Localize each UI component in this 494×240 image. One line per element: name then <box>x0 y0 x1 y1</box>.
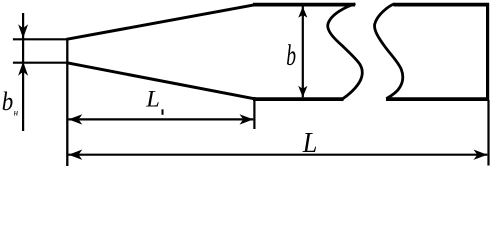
arrowhead b_n up (below strip, pointing up) <box>18 62 28 76</box>
svg-text:b: b <box>286 39 296 72</box>
extension line at right end (for L) <box>487 100 489 166</box>
svg-text:н: н <box>14 108 19 118</box>
right piece right edge <box>486 3 489 101</box>
extension line at taper end (for L1) <box>253 97 255 129</box>
specimen narrow-end top edge <box>13 38 69 40</box>
svg-text:b: b <box>2 86 14 116</box>
right piece bottom edge <box>386 97 489 101</box>
dimension line L <box>69 154 488 156</box>
label L1 subscript 1 <box>162 109 164 115</box>
taper top edge <box>67 5 257 40</box>
break curve (left edge of right piece) <box>375 4 403 99</box>
arrowhead b bottom <box>298 86 307 97</box>
svg-text:L: L <box>145 86 160 111</box>
right piece top edge <box>394 3 490 7</box>
taper bottom edge <box>67 63 257 99</box>
dimension line b (vertical inside body) <box>302 7 304 98</box>
arrowhead L1 left <box>69 114 83 124</box>
specimen narrow-end bottom edge <box>13 62 69 64</box>
dimension line L1 <box>69 118 254 120</box>
dimension line b_n (vertical at left) <box>22 13 24 131</box>
svg-text:L: L <box>302 128 318 159</box>
arrowhead L1 right <box>240 114 254 124</box>
arrowhead b top <box>298 7 307 18</box>
wide body top edge (left piece) <box>253 3 355 7</box>
arrowhead L right <box>474 150 488 160</box>
narrow-end right edge / extension line for L1 and L <box>66 38 68 166</box>
wide body bottom edge (left piece) <box>253 97 344 101</box>
arrowhead b_n down (above strip, pointing down) <box>18 24 28 38</box>
arrowhead L left <box>69 150 83 160</box>
break curve (right edge of left piece) <box>328 4 363 99</box>
